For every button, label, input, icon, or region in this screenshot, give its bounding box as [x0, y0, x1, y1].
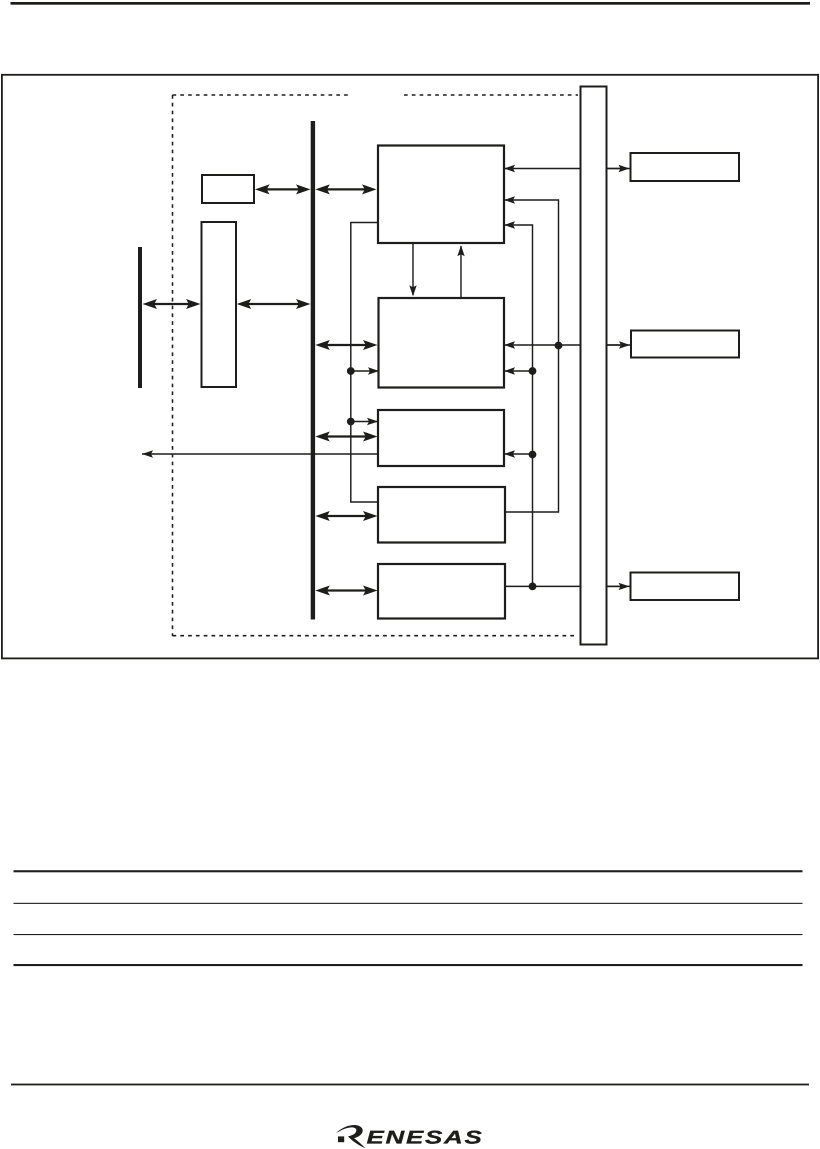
wire: down arrow box1 to box2 (x=413)	[412, 243, 414, 295]
block: serial interface (box5)	[378, 564, 505, 619]
block: peripheral A	[631, 153, 740, 181]
arrow: bus IF to box B	[607, 344, 623, 346]
block: peripheral C	[631, 573, 740, 601]
arrowheads (small)	[142, 165, 630, 590]
figure frame	[2, 75, 818, 659]
bus double arrow: bus to box4	[315, 511, 377, 521]
block: ROM (box2)	[379, 298, 505, 388]
block: I/O port (tall box)	[202, 222, 237, 387]
block: peripheral B	[631, 331, 739, 358]
wire W2 from box4 up to CPU (x=558.5)	[504, 200, 559, 512]
wire: box5 line to box C (y=586.4)	[505, 585, 631, 587]
wire: W1 branch into box2 (y=371)	[504, 370, 533, 372]
table rule 1 (thick)	[14, 870, 803, 872]
block: CPU (box1)	[378, 146, 504, 244]
wire: interrupt line to box A (y=168.5)	[504, 168, 631, 170]
bus double arrow: bus to box1	[315, 184, 376, 194]
bus double arrow: small box to bus	[255, 184, 311, 194]
internal data bus (thick)	[311, 121, 315, 620]
external data bus (thick, left)	[138, 247, 142, 388]
junction dots	[347, 342, 562, 591]
bus double arrow: bus to box5	[315, 586, 377, 596]
wire: W3 branch into box3 (y=421.5)	[351, 421, 378, 423]
wire W1 from box5 line up to CPU (x=532.5)	[504, 225, 533, 586]
block: port register (small box)	[202, 175, 254, 203]
bus double arrow: ext bus to I/O port	[143, 299, 201, 309]
wire: long NMI line with left arrow (y=454)	[142, 453, 533, 455]
wire: W3 branch into box2 (y=371)	[351, 370, 378, 372]
block: bus interface column	[581, 87, 607, 645]
table rule 4 (thick)	[14, 964, 803, 966]
footer rule	[11, 1084, 809, 1086]
wire: box2 line to box B (y=345)	[504, 344, 631, 346]
Renesas logo	[336, 1125, 484, 1148]
bus double arrow: bus to box2	[315, 340, 377, 350]
bus double arrow: I/O port to bus	[237, 299, 311, 309]
block: timer (box4)	[378, 487, 505, 543]
bus double arrow: bus to box3	[315, 432, 377, 442]
header rule	[11, 2, 811, 5]
wire: up arrow box2 to box1 (x=461)	[460, 246, 462, 298]
dashed chip boundary	[173, 95, 579, 636]
arrow: bus IF to box C	[607, 585, 623, 587]
wire W3 from box1 left down to box4 (x=350.8)	[351, 223, 378, 503]
table rule 3	[14, 934, 803, 935]
svg-text:ENESAS: ENESAS	[367, 1126, 484, 1147]
arrow: bus IF to box A	[607, 168, 623, 170]
table rule 2	[14, 903, 803, 904]
block: RAM (box3)	[378, 410, 504, 466]
